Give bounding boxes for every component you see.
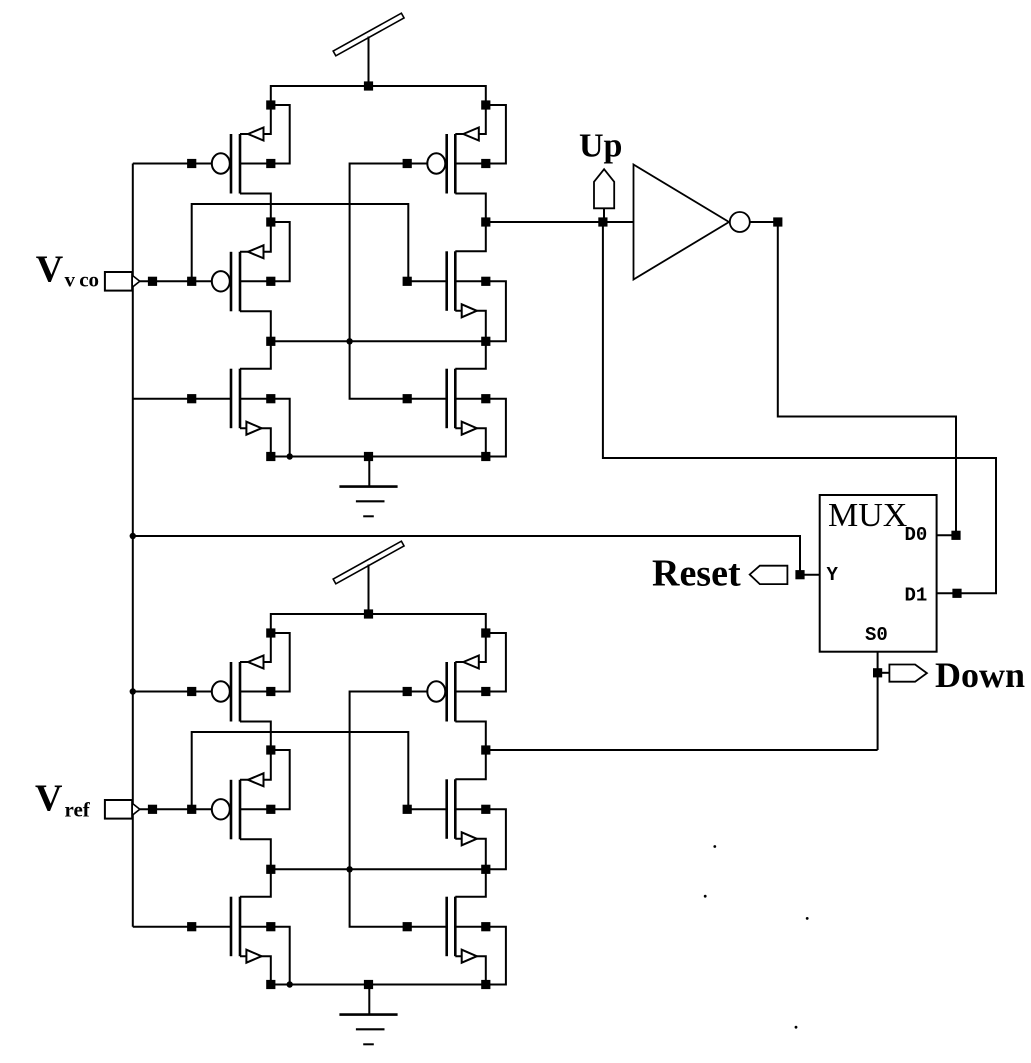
svg-text:D0: D0	[905, 524, 928, 546]
svg-text:Up: Up	[579, 128, 622, 165]
svg-text:Down: Down	[935, 655, 1025, 695]
svg-text:V: V	[35, 777, 63, 819]
svg-text:V: V	[36, 249, 64, 291]
svg-text:MUX: MUX	[828, 497, 907, 534]
svg-text:Y: Y	[827, 564, 839, 586]
svg-text:D1: D1	[905, 584, 928, 606]
svg-text:Reset: Reset	[652, 553, 741, 595]
svg-text:ref: ref	[65, 798, 91, 822]
svg-text:S0: S0	[865, 624, 888, 646]
svg-text:v co: v co	[65, 268, 100, 292]
